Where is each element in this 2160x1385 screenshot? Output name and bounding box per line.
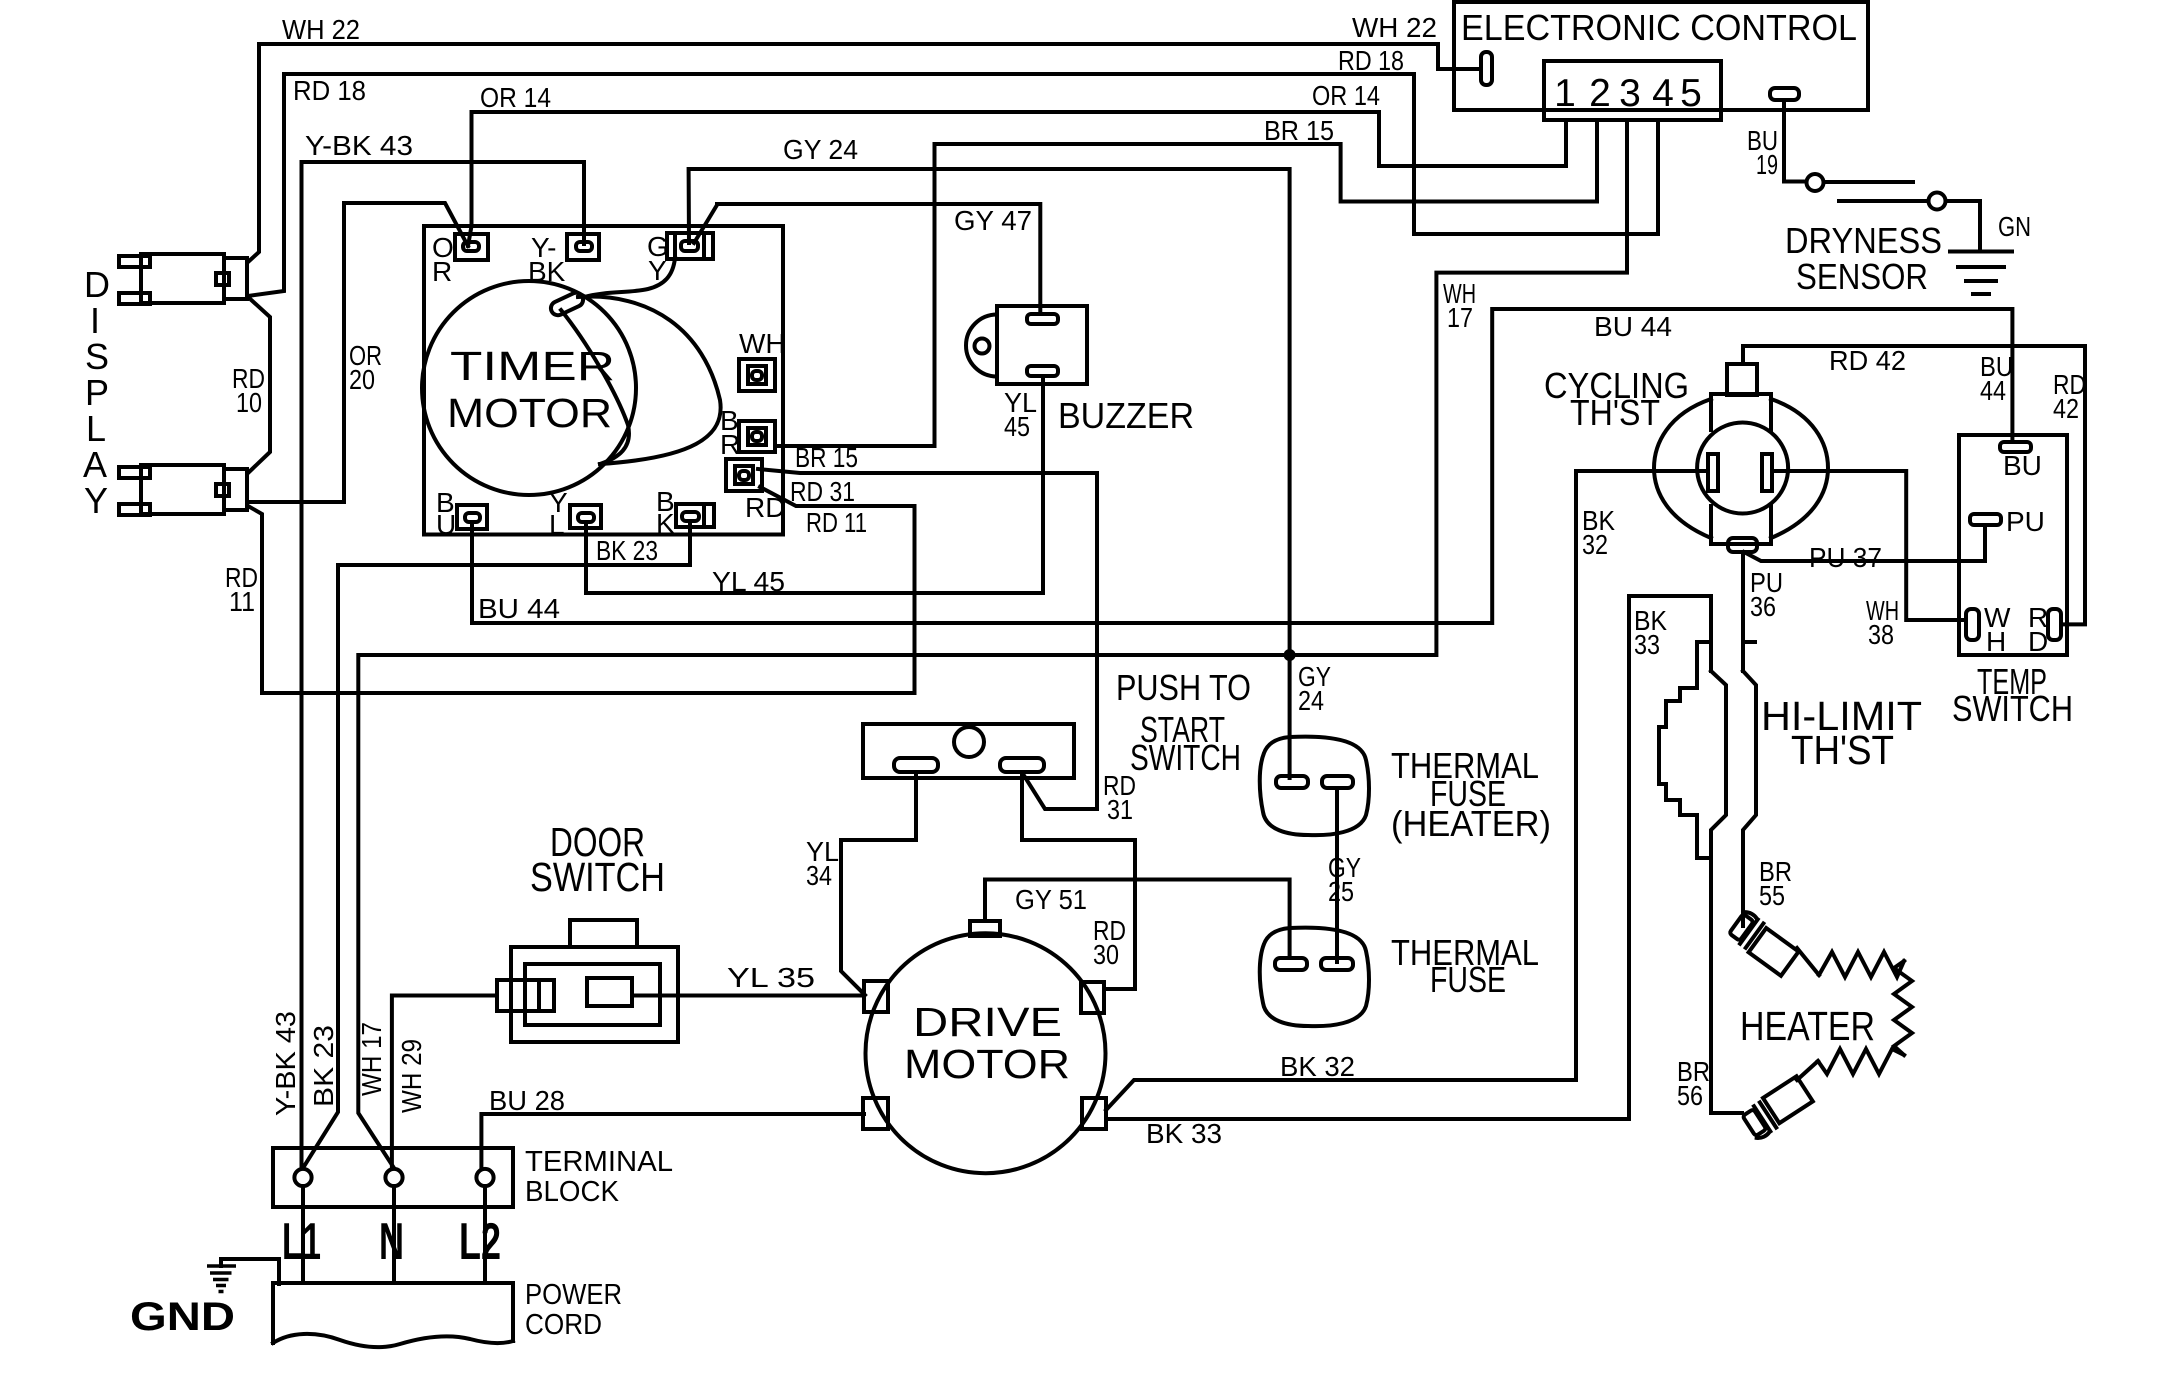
dryness sensor switch contact 1 [1807,174,1824,191]
svg-text:BK: BK [528,256,566,287]
thermal fuse body [1260,928,1369,1027]
drive motor top tab [970,921,1000,936]
timer motor box [424,226,783,535]
svg-text:GND: GND [130,1295,235,1339]
wire BR 55 (hi-limit to heater plug) [1741,858,1745,926]
heater plug lower tail [1797,1061,1818,1080]
junction dot GY24/WH17 [1284,649,1296,661]
svg-text:WH 29: WH 29 [396,1039,427,1113]
wire RD 18 (display to electronic control T4) [248,74,1658,296]
drive motor right lower tab [1082,1098,1106,1129]
wire BU 28 (terminal block L2 to drive motor) [481,1114,864,1168]
timer GY pigtail curve [584,258,675,297]
drive motor left lower tab [863,1098,888,1129]
wire PU 37 (cycling bottom to temp switch PU) [1744,528,1985,561]
svg-text:30: 30 [1093,939,1119,970]
svg-text:R: R [432,256,452,287]
heater element zigzag bottom [1818,1049,1904,1074]
wire GY 51 (drive motor to thermal fuse) [985,880,1290,959]
svg-text:31: 31 [1107,794,1133,825]
cycling thermostat collar top [1711,394,1771,430]
wire OR 20 (display to timer OR terminal) [249,203,468,502]
wire L2 to power cord [483,1186,487,1283]
svg-text:WH 17: WH 17 [356,1022,387,1096]
display connector top: right cap [224,258,247,299]
svg-text:55: 55 [1759,880,1785,911]
power cord body [273,1283,513,1343]
svg-text:GY 24: GY 24 [783,134,858,165]
wire BK 33 (drive motor to hi-limit thermostat) [1107,596,1711,1119]
wire YL 34 (push to start to drive motor) [841,772,916,995]
svg-text:A: A [83,444,107,485]
wire YL 35 (door switch to drive motor) [632,994,864,998]
terminal block screw N [385,1169,402,1186]
svg-text:P: P [85,372,109,413]
cycling thermostat stem rect [1727,364,1757,395]
svg-text:ELECTRONIC CONTROL: ELECTRONIC CONTROL [1461,7,1857,48]
svg-text:H: H [1986,626,2006,657]
svg-text:Y: Y [648,255,667,286]
svg-text:BR 15: BR 15 [1264,115,1334,146]
wire BK 32 vertical (to cycling left pin) [1576,471,1708,1080]
svg-text:L: L [86,408,106,449]
svg-text:38: 38 [1868,619,1894,650]
timer cam horn outer curve [578,297,721,464]
svg-text:SWITCH: SWITCH [1130,737,1241,778]
svg-text:BK 23: BK 23 [308,1025,339,1107]
svg-text:PU: PU [2006,506,2045,537]
svg-text:GN: GN [1998,211,2031,242]
wire BR 15 (timer BR terminal to electronic control T2) [775,120,1597,446]
svg-text:PU 37: PU 37 [1809,542,1882,573]
svg-text:R: R [720,429,740,460]
svg-text:BK 33: BK 33 [1146,1118,1222,1149]
svg-text:DRIVE: DRIVE [913,999,1062,1045]
svg-text:SWITCH: SWITCH [530,854,665,900]
wire GY 47 (timer GY terminal to buzzer) [694,204,1040,312]
electronic control right pin [1770,88,1799,100]
svg-text:25: 25 [1328,876,1354,907]
terminal block screw L2 [476,1169,493,1186]
svg-text:BU 44: BU 44 [1594,311,1672,342]
cycling thermostat right wing [1771,399,1828,538]
wire YL 45 (timer YL terminal to buzzer bottom) [586,378,1043,593]
dryness sensor switch blade 1 [1824,180,1913,184]
pin stem to box edge [1782,100,1786,110]
svg-text:DRYNESS: DRYNESS [1785,220,1942,261]
temp switch box [1959,435,2067,655]
display connector bottom: body [141,465,224,514]
svg-text:MOTOR: MOTOR [447,390,612,436]
temp switch RD pill [2048,609,2061,640]
terminal GY on timer [667,233,713,259]
electronic control box [1454,2,1868,110]
svg-text:11: 11 [229,586,255,617]
svg-text:D: D [84,264,110,305]
svg-text:GY 51: GY 51 [1015,884,1087,915]
wire GY 24 (timer GY terminal to thermal fuse heater, junction with WH 17) [689,169,1290,778]
display connector bottom: right cap [224,469,247,510]
svg-text:Y: Y [84,480,108,521]
terminal BU on timer [457,505,487,529]
svg-text:BR 15: BR 15 [795,442,858,473]
svg-text:BK 23: BK 23 [596,535,658,566]
terminal OR on timer [455,234,488,260]
hi-limit thermostat right plate top bar [1743,640,1755,644]
svg-text:BU 44: BU 44 [478,593,560,624]
svg-text:D: D [2028,626,2048,657]
push to start switch button circle [954,727,984,757]
wire WH 17 (electronic control T3 to terminal block N, junction with GY24) [358,120,1627,1168]
door switch left plug [497,980,554,1011]
svg-text:19: 19 [1756,149,1778,180]
electronic control terminal box 1 2 3 4 5 [1544,61,1721,120]
display connector top: centre tab [216,273,229,285]
cycling thermostat left pin [1708,454,1718,491]
svg-text:RD 42: RD 42 [1829,345,1906,376]
svg-text:WH: WH [739,328,786,359]
svg-text:MOTOR: MOTOR [904,1041,1070,1087]
electronic control left pin [1481,52,1492,85]
ground wire GND [221,1259,279,1284]
terminal block box [273,1148,513,1207]
display connector bottom: prong 2 [119,504,150,515]
dryness sensor switch blade 2 [1839,199,1928,203]
temp switch PU pill [1970,514,2001,525]
svg-text:RD 11: RD 11 [806,507,867,538]
wire BK 32 (drive motor to cycling thermostat) [1106,1080,1576,1110]
svg-text:SENSOR: SENSOR [1796,256,1928,297]
terminal RD on timer [726,459,762,491]
svg-text:34: 34 [806,860,832,891]
svg-text:17: 17 [1447,302,1473,333]
wire GY 25 (thermal fuse heater to thermal fuse) [1335,790,1339,962]
heater plug lower [1740,1076,1814,1140]
svg-text:TH'ST: TH'ST [1791,727,1894,773]
svg-text:CORD: CORD [525,1309,602,1341]
buzzer mount semicircle [966,315,997,377]
display connector top: prong 1 [119,256,150,267]
wire RD 42 (cycling thermostat to temp switch RD) [1743,346,2085,624]
door switch top tab [570,920,637,947]
svg-text:32: 32 [1582,529,1608,560]
svg-text:36: 36 [1750,591,1776,622]
svg-text:33: 33 [1634,629,1660,660]
hi-limit thermostat left cup steps [1659,642,1711,858]
svg-text:Y-BK 43: Y-BK 43 [270,1011,301,1116]
svg-text:RD 18: RD 18 [293,75,366,106]
svg-text:4: 4 [1652,72,1674,115]
svg-text:RD: RD [745,492,785,523]
svg-text:BUZZER: BUZZER [1058,395,1194,436]
svg-text:WH 22: WH 22 [282,14,360,45]
push to start switch right pill [1000,758,1044,772]
wire RD 10 (display top to display bottom connector) [248,297,270,473]
thermal fuse heater right pill [1322,776,1353,788]
wire BU 44 (timer BU terminal to temp switch BU) [472,309,2012,623]
thermal fuse left pill [1275,958,1307,970]
wire OR 14 (timer OR terminal to electronic control T1) [468,112,1566,246]
ground symbol GND [207,1266,236,1292]
cycling thermostat circle [1697,423,1788,514]
svg-text:5: 5 [1680,72,1702,115]
wire WH 38 (cycling right pin to temp switch WH) [1772,471,1966,620]
svg-text:10: 10 [236,387,262,418]
svg-text:L2: L2 [459,1213,501,1271]
svg-text:RD 31: RD 31 [790,476,855,507]
wire WH 29 (door switch to terminal block N) [392,996,497,1169]
display connector top: prong 2 [119,293,150,304]
svg-text:L: L [549,509,565,540]
wire L1 to power cord [301,1186,305,1283]
svg-text:24: 24 [1298,685,1324,716]
heater element zigzag top [1819,952,1904,977]
thermal fuse right pill [1321,958,1353,970]
temp switch BU pill [2000,442,2031,452]
thermal fuse heater left pill [1276,776,1308,788]
timer cam pill [549,290,586,317]
thermal fuse heater body [1260,737,1369,836]
wire RD 11 (display bottom to timer RD terminal) [248,487,915,693]
temp switch WH pill [1966,609,1979,640]
cycling thermostat collar bottom [1711,506,1771,544]
svg-text:3: 3 [1619,72,1641,115]
wire N to power cord [392,1186,396,1283]
svg-text:BU 28: BU 28 [489,1085,565,1116]
svg-text:YL 35: YL 35 [727,962,815,993]
cycling thermostat left wing [1654,399,1711,538]
heater element zigzag right vertical [1894,961,1912,1055]
svg-text:K: K [656,508,675,539]
svg-text:L1: L1 [282,1213,321,1271]
buzzer top pill [1027,314,1058,324]
wire BR 56 (heater plug to hi-limit) [1711,858,1742,1113]
wire RD 30 (push to start to drive motor) [1022,772,1135,989]
svg-text:HEATER: HEATER [1740,1003,1875,1049]
heater plug upper [1727,910,1801,976]
drive motor right upper tab [1081,982,1104,1013]
ground symbol dryness sensor [1950,250,2012,254]
door switch inner pill [587,978,632,1006]
display connector top: body [141,254,224,303]
wire WH 22 (display to electronic control) [248,44,1480,262]
buzzer bottom pill [1027,366,1058,376]
svg-text:Y-BK 43: Y-BK 43 [305,130,413,161]
svg-text:2: 2 [1589,72,1611,115]
display connector bottom: centre tab [216,484,229,496]
drive motor circle [866,933,1106,1173]
svg-text:BLOCK: BLOCK [525,1176,620,1208]
wire BK 23 (timer BK terminal to terminal block L1) [303,523,690,1168]
svg-text:SWITCH: SWITCH [1952,688,2073,729]
hi-limit thermostat left plate with chamfers [1711,671,1726,858]
terminal YL on timer [570,505,601,528]
wire BU 19 (electronic control to dryness sensor switch) [1784,110,1806,182]
svg-text:RD 18: RD 18 [1338,45,1404,76]
buzzer body [997,306,1087,384]
wire RD 31 (timer RD terminal to push-to-start switch) [758,469,1097,809]
svg-text:PUSH TO: PUSH TO [1116,667,1251,708]
svg-text:BK 32: BK 32 [1280,1051,1355,1082]
svg-text:BU: BU [2003,450,2042,481]
wire GN to ground [1946,201,1981,252]
svg-text:WH 22: WH 22 [1352,12,1437,43]
svg-text:S: S [85,336,109,377]
display connector bottom: prong 1 [119,467,150,478]
push to start switch left pill [894,758,938,772]
heater plug upper tail [1797,948,1819,975]
svg-text:20: 20 [349,364,375,395]
push to start switch box [863,724,1074,778]
power cord wavy bottom [273,1334,513,1347]
cycling thermostat bottom pill [1728,538,1757,552]
buzzer mount hole [975,339,990,354]
dryness sensor switch contact 2 [1929,193,1946,210]
timer motor circle [422,281,636,495]
svg-text:42: 42 [2053,393,2079,424]
svg-text:56: 56 [1677,1080,1703,1111]
door switch outer box [511,947,678,1042]
drive motor left upper tab [864,981,888,1012]
wire Y-BK 43 (timer to terminal block L1) [302,162,585,1168]
svg-text:TH'ST: TH'ST [1570,392,1660,433]
svg-text:I: I [90,300,100,341]
svg-text:44: 44 [1980,375,2006,406]
terminal Y-BK on timer [567,234,599,260]
svg-text:GY 47: GY 47 [954,205,1032,236]
hi-limit thermostat right plate with chamfers [1743,671,1756,858]
svg-text:OR 14: OR 14 [480,82,551,113]
terminal BK on timer [676,504,714,527]
svg-text:OR 14: OR 14 [1312,80,1380,111]
svg-text:1: 1 [1554,72,1576,115]
terminal block screw L1 [294,1169,311,1186]
svg-text:POWER: POWER [525,1279,622,1311]
svg-text:U: U [436,509,456,540]
terminal WH on timer [739,359,775,391]
svg-text:45: 45 [1004,411,1030,442]
cycling thermostat right pin [1762,454,1772,491]
timer cam horn inner curve [561,310,629,464]
door switch inner box [525,964,660,1025]
svg-text:FUSE: FUSE [1430,959,1506,1000]
svg-text:N: N [379,1213,404,1271]
wire PU 36 (cycling bottom to hi-limit) [1741,552,1745,671]
svg-text:(HEATER): (HEATER) [1391,803,1551,844]
terminal BR on timer [739,421,775,452]
svg-text:YL 45: YL 45 [712,566,785,597]
svg-text:TERMINAL: TERMINAL [525,1146,673,1178]
